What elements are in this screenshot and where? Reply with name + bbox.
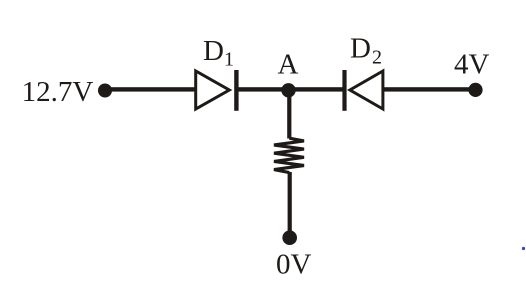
wire resistor to 0V terminal <box>288 172 292 233</box>
terminal left 12.7V <box>98 84 112 98</box>
diode D2 <box>342 70 346 111</box>
svg-text:2: 2 <box>372 47 382 69</box>
wire left terminal to D1 <box>105 87 197 91</box>
svg-text:1: 1 <box>224 49 234 71</box>
node A junction dot <box>281 83 295 97</box>
svg-text:D: D <box>203 35 224 67</box>
svg-text:12.7V: 12.7V <box>22 76 94 108</box>
svg-text:0V: 0V <box>276 249 312 281</box>
resistor R <box>274 138 304 172</box>
svg-text:A: A <box>278 49 299 81</box>
svg-text:D: D <box>350 33 371 65</box>
svg-text:4V: 4V <box>454 49 490 81</box>
wire node A to D2 <box>289 87 343 91</box>
diode D1 <box>196 71 230 109</box>
terminal bottom 0V <box>282 230 297 245</box>
stray blue speck <box>522 247 525 250</box>
wire node A down to resistor <box>287 90 291 139</box>
wire D2 to right terminal <box>384 87 476 91</box>
wire D1 to node A <box>238 87 291 91</box>
terminal right 4V <box>468 83 482 97</box>
